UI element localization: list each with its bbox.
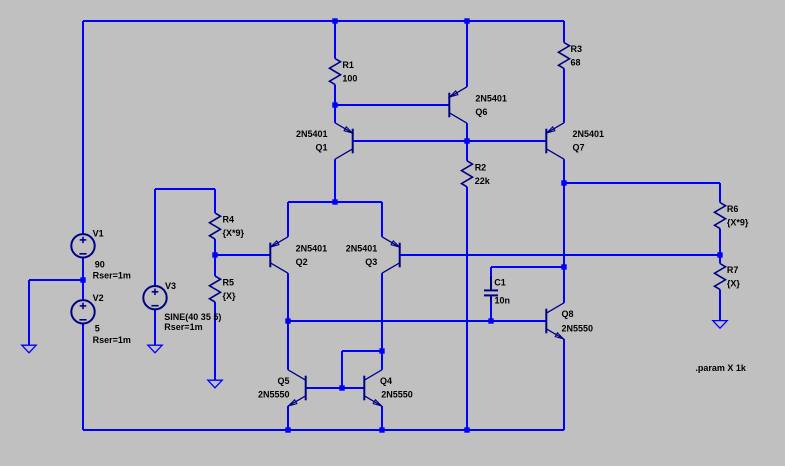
svg-text:Q2: Q2 <box>296 257 308 267</box>
svg-text:V2: V2 <box>93 293 104 303</box>
svg-text:.param X 1k: .param X 1k <box>695 363 747 373</box>
svg-text:Q5: Q5 <box>277 376 289 386</box>
svg-text:{X*9}: {X*9} <box>223 228 245 238</box>
svg-text:2N5401: 2N5401 <box>296 244 328 254</box>
svg-text:R5: R5 <box>223 278 235 288</box>
svg-text:Q8: Q8 <box>562 309 574 319</box>
svg-text:{X}: {X} <box>727 279 741 289</box>
svg-text:Q6: Q6 <box>475 107 487 117</box>
svg-text:Q3: Q3 <box>365 257 377 267</box>
svg-text:100: 100 <box>342 74 357 84</box>
svg-text:Rser=1m: Rser=1m <box>93 335 131 345</box>
svg-text:22k: 22k <box>475 176 491 186</box>
svg-text:V3: V3 <box>165 281 176 291</box>
svg-text:Q7: Q7 <box>573 143 585 153</box>
svg-text:2N5401: 2N5401 <box>296 129 328 139</box>
svg-text:{X*9}: {X*9} <box>727 218 749 228</box>
svg-text:68: 68 <box>571 58 581 68</box>
svg-text:Q4: Q4 <box>380 376 392 386</box>
svg-text:{X}: {X} <box>223 291 237 301</box>
svg-text:2N5401: 2N5401 <box>573 129 605 139</box>
svg-text:2N5550: 2N5550 <box>562 323 594 333</box>
svg-text:R7: R7 <box>727 265 739 275</box>
svg-text:C1: C1 <box>494 278 506 288</box>
svg-text:10n: 10n <box>495 296 511 306</box>
svg-text:2N5401: 2N5401 <box>346 244 378 254</box>
svg-text:2N5401: 2N5401 <box>475 94 507 104</box>
svg-text:Rser=1m: Rser=1m <box>164 322 202 332</box>
svg-text:R1: R1 <box>342 60 354 70</box>
svg-text:R2: R2 <box>475 162 487 172</box>
svg-text:2N5550: 2N5550 <box>381 389 413 399</box>
svg-text:5: 5 <box>95 324 100 334</box>
svg-text:Rser=1m: Rser=1m <box>93 270 131 280</box>
svg-text:90: 90 <box>95 259 105 269</box>
svg-text:R4: R4 <box>223 215 235 225</box>
svg-text:R3: R3 <box>571 44 583 54</box>
svg-text:R6: R6 <box>727 204 739 214</box>
svg-text:SINE(40 35 5): SINE(40 35 5) <box>164 312 221 322</box>
svg-text:Q1: Q1 <box>315 143 327 153</box>
svg-text:V1: V1 <box>93 229 104 239</box>
svg-text:2N5550: 2N5550 <box>258 389 290 399</box>
